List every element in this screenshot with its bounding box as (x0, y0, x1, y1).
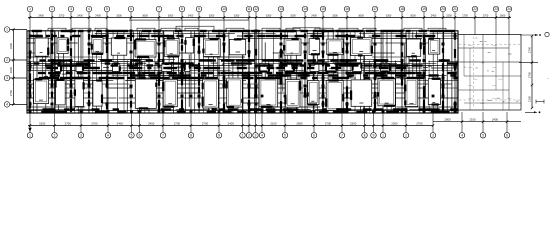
grid bubble top 3 (68, 6, 74, 12)
building left double wall (28, 31, 30, 113)
grid bubble bottom 21 (430, 133, 436, 139)
svg-text:4: 4 (6, 103, 8, 107)
shear wall segments horizontal (32, 30, 42, 32)
svg-text:1700: 1700 (462, 15, 468, 18)
grid bubble top 13 (278, 6, 284, 12)
svg-text:'0.00: '0.00 (498, 79, 503, 81)
svg-text:3: 3 (255, 133, 257, 137)
svg-text:2900: 2900 (296, 121, 303, 125)
grid bubble top 23 (493, 6, 499, 12)
grid bubble top 14 (302, 6, 308, 12)
svg-text:9: 9 (218, 133, 220, 137)
grid bubble bottom 17 (362, 133, 368, 139)
svg-text:7: 7 (162, 133, 164, 137)
svg-text:'0.00: '0.00 (468, 67, 473, 69)
wire: grid extension line (198, 12, 200, 31)
wire: grid extension line (508, 12, 510, 35)
svg-text:2400: 2400 (492, 118, 499, 122)
wire: bottom extension line (190, 113, 192, 132)
wire: grid extension line (88, 12, 90, 31)
grid bubble top 6 (128, 6, 134, 12)
wire: bottom extension line (131, 113, 133, 132)
tick (531, 61, 533, 63)
right bottom leader arrow (525, 111, 537, 113)
annex outline (458, 35, 521, 111)
svg-text:1500: 1500 (446, 15, 452, 18)
grid bubble bottom 3 (78, 133, 84, 139)
grid bubble bottom 4 (105, 133, 111, 139)
svg-text:6: 6 (506, 133, 508, 137)
svg-text:1: 1 (6, 28, 8, 32)
grid bubble top 11 (246, 6, 252, 12)
svg-text:'0.00: '0.00 (492, 98, 497, 100)
building outline (27, 31, 458, 113)
grid bubble bottom 23 (480, 133, 486, 139)
wire: bottom extension line (506, 112, 508, 132)
wire: grid extension line (248, 12, 250, 31)
svg-text:3600: 3600 (358, 15, 364, 18)
grid bubble bottom 16 (339, 133, 345, 139)
svg-text:16: 16 (345, 7, 349, 11)
grid bubble bottom 10 (240, 133, 246, 139)
grid bubble bottom 14 (282, 133, 288, 139)
annex interior vertical lines (482, 35, 484, 111)
wire: left extension line (10, 103, 27, 105)
grid bubble bottom 13 (259, 133, 265, 139)
column blobs (29, 35, 32, 38)
grid bubble bottom 19 (380, 133, 386, 139)
svg-text:2700: 2700 (483, 15, 489, 18)
svg-text:13: 13 (279, 7, 283, 11)
grid bubble bottom 24 (504, 133, 510, 139)
svg-text:3300: 3300 (332, 15, 338, 18)
wire: bottom extension line (261, 113, 263, 132)
grid bubble left 4 (4, 102, 10, 108)
right small dimension bracket (536, 101, 544, 103)
grid bubble left 3 (4, 75, 10, 81)
wire: grid extension line (70, 12, 72, 31)
wire: bottom extension line (405, 113, 407, 132)
grid bubble bottom 9 (216, 133, 222, 139)
annex interior horizontal lines (458, 47, 509, 49)
grid bubble top 12 (253, 6, 259, 12)
wire: bottom extension line (255, 113, 257, 132)
svg-text:1: 1 (242, 133, 244, 137)
grid bubble top 21 (452, 6, 458, 12)
svg-text:3300: 3300 (116, 15, 122, 18)
wire: grid extension line (51, 12, 53, 31)
svg-text:18: 18 (400, 7, 404, 11)
grid bubble bottom 1 (27, 133, 33, 139)
svg-text:7: 7 (341, 133, 343, 137)
svg-text:2700: 2700 (528, 71, 532, 78)
svg-text:'0.00: '0.00 (492, 85, 497, 87)
wire: bottom extension line (54, 113, 56, 132)
grid bubble top 4 (86, 6, 92, 12)
svg-text:3: 3 (6, 76, 8, 80)
svg-text:2400: 2400 (38, 15, 44, 18)
right extension line (519, 62, 538, 64)
wire: bottom extension line (341, 113, 343, 132)
annex small marks (503, 100, 505, 102)
svg-text:2100: 2100 (469, 118, 476, 122)
wire: grid extension line (401, 12, 403, 31)
wire: bottom extension line (107, 113, 109, 132)
wire: grid extension line (158, 12, 160, 31)
wire: bottom extension line (461, 112, 463, 132)
right top leader arrow (520, 34, 538, 36)
interior mesh vertical lines (28, 61, 30, 114)
svg-text:22: 22 (473, 7, 477, 11)
svg-text:3300: 3300 (266, 15, 272, 18)
svg-text:2: 2 (51, 7, 53, 11)
svg-text:4: 4 (107, 133, 109, 137)
grid bubble bottom 6 (137, 133, 143, 139)
grid bubble left 1 (4, 27, 10, 33)
svg-text:'0.00: '0.00 (480, 103, 485, 105)
annex dashed lines (459, 44, 520, 46)
svg-text:2700: 2700 (325, 121, 332, 125)
svg-text:3: 3 (70, 7, 72, 11)
building bottom double wall (27, 110, 458, 112)
grid bubble bottom 8 (188, 133, 194, 139)
grid bubble bottom 15 (311, 133, 317, 139)
wire: grid extension line (454, 12, 456, 31)
svg-text:2300: 2300 (391, 121, 398, 125)
grid bubble top 2 (49, 6, 55, 12)
svg-text:2400: 2400 (431, 15, 437, 18)
grid bubble bottom 7 (160, 133, 166, 139)
grid bubble top 18 (399, 6, 405, 12)
expansion joint (248, 31, 250, 113)
svg-text:8: 8 (364, 133, 366, 137)
shear wall segments on room borders (47, 48, 49, 56)
svg-text:11: 11 (247, 7, 251, 11)
wire: bottom extension line (313, 113, 315, 132)
svg-text:3300: 3300 (234, 15, 240, 18)
svg-text:'0.00: '0.00 (473, 79, 478, 81)
svg-text:2700: 2700 (59, 15, 65, 18)
tick (531, 84, 533, 86)
grid bubble bottom 22 (459, 133, 465, 139)
right vertical dimension line (531, 36, 533, 108)
wire: bottom extension line (242, 113, 244, 132)
grid bubble top 20 (440, 6, 446, 12)
wire: bottom extension line (218, 113, 220, 132)
top secondary dimension line (129, 19, 249, 21)
svg-text:9: 9 (373, 133, 375, 137)
small interior marks (40, 52, 43, 54)
tick (531, 35, 533, 37)
svg-text:5: 5 (106, 7, 108, 11)
svg-text:2700: 2700 (528, 46, 532, 53)
grid bubble top 24 (506, 6, 512, 12)
svg-text:4: 4 (261, 133, 263, 137)
svg-text:2400: 2400 (188, 15, 194, 18)
svg-text:6: 6 (130, 7, 132, 11)
svg-text:'0.00: '0.00 (507, 98, 512, 100)
svg-text:'0.00: '0.00 (492, 67, 497, 69)
grid bubble top 22 (472, 6, 478, 12)
grid bubble left 2 (4, 57, 10, 63)
wire: grid extension line (442, 12, 444, 31)
top dimension line (28, 17, 511, 19)
svg-text:5: 5 (131, 133, 133, 137)
parapet segments (48, 28, 66, 31)
svg-text:2700: 2700 (65, 121, 72, 125)
svg-text:5: 5 (284, 133, 286, 137)
svg-text:8: 8 (181, 7, 183, 11)
wire: grid extension line (495, 12, 497, 35)
wire: grid extension line (322, 12, 324, 31)
svg-text:2: 2 (248, 133, 250, 137)
wire: bottom extension line (284, 113, 286, 132)
svg-text:'0.00: '0.00 (468, 85, 473, 87)
svg-text:2100: 2100 (270, 121, 277, 125)
grid bubble bottom 20 (403, 133, 409, 139)
svg-text:9: 9 (198, 7, 200, 11)
grid bubble bottom 11 (246, 133, 252, 139)
grid bubble top 9 (196, 6, 202, 12)
grid bubble top 19 (421, 6, 427, 12)
svg-text:7: 7 (158, 7, 160, 11)
svg-text:1: 1 (29, 7, 31, 11)
wire: bottom extension line (162, 113, 164, 132)
svg-text:3: 3 (432, 133, 434, 137)
svg-text:3600: 3600 (142, 15, 148, 18)
svg-text:23: 23 (494, 7, 498, 11)
svg-text:2700: 2700 (202, 121, 209, 125)
annex bottom dimension line (433, 121, 521, 123)
svg-text:2: 2 (6, 58, 8, 62)
wire: bottom extension line (364, 113, 366, 132)
svg-text:6: 6 (313, 133, 315, 137)
svg-text:4: 4 (461, 133, 463, 137)
svg-text:1: 1 (382, 133, 384, 137)
wire: grid extension line (346, 12, 348, 31)
tick (531, 107, 533, 109)
wire: bottom extension line (373, 113, 375, 132)
svg-text:1500: 1500 (39, 121, 46, 125)
right top marker bubble (545, 32, 549, 36)
wire: bottom extension line (382, 113, 384, 132)
grid bubble bottom 12 (253, 133, 259, 139)
grid bubble bottom 18 (371, 133, 377, 139)
wire: grid extension line (474, 12, 476, 35)
svg-text:10: 10 (222, 7, 226, 11)
wire: grid extension line (181, 12, 183, 31)
svg-text:3000: 3000 (168, 15, 174, 18)
svg-text:24: 24 (507, 7, 511, 11)
grid bubble top 10 (221, 6, 227, 12)
grid bubble top 7 (156, 6, 162, 12)
wire: bottom extension line (482, 112, 484, 132)
svg-text:21: 21 (453, 7, 457, 11)
svg-text:2700: 2700 (9, 89, 13, 96)
svg-text:'0.00: '0.00 (468, 98, 473, 100)
grid bubble top 8 (179, 6, 185, 12)
wire: bottom extension line (139, 113, 141, 132)
svg-text:17: 17 (373, 7, 377, 11)
grid bubble bottom 5 (129, 133, 135, 139)
svg-text:3000: 3000 (410, 15, 416, 18)
grid bubble top 15 (320, 6, 326, 12)
svg-text:1800: 1800 (9, 66, 13, 73)
svg-text:2700: 2700 (174, 121, 181, 125)
wire: grid extension line (304, 12, 306, 31)
grid bubble top 17 (372, 6, 378, 12)
svg-text:2400: 2400 (228, 121, 235, 125)
wire: left extension line (10, 77, 27, 79)
grid bubble top 5 (104, 6, 110, 12)
wire: grid extension line (423, 12, 425, 31)
grid bubble bottom 2 (52, 133, 58, 139)
svg-text:3300: 3300 (386, 15, 392, 18)
svg-text:2: 2 (405, 133, 407, 137)
svg-text:2400: 2400 (95, 15, 101, 18)
svg-text:15: 15 (321, 7, 325, 11)
wire: grid extension line (223, 12, 225, 31)
grid bubble top 16 (344, 6, 350, 12)
wire: grid extension line (280, 12, 282, 31)
svg-text:5: 5 (482, 133, 484, 137)
svg-text:3300: 3300 (290, 15, 296, 18)
wire: bottom extension line (248, 113, 250, 132)
svg-text:3300: 3300 (209, 15, 215, 18)
interior mesh horizontal lines (95, 33, 162, 35)
wire: bottom extension line (80, 113, 82, 132)
wire: grid extension line (29, 12, 31, 31)
svg-text:2700: 2700 (91, 121, 98, 125)
interior grid verticals (29, 31, 31, 113)
left vertical dimension line (13, 30, 15, 105)
svg-text:2400: 2400 (311, 15, 317, 18)
wire: grid extension line (106, 12, 108, 31)
svg-text:1: 1 (29, 133, 31, 137)
svg-text:12: 12 (254, 7, 258, 11)
svg-text:2: 2 (54, 133, 56, 137)
svg-text:1800: 1800 (500, 15, 506, 18)
svg-text:2400: 2400 (117, 121, 124, 125)
svg-text:14: 14 (303, 7, 307, 11)
svg-text:2900: 2900 (444, 118, 451, 122)
svg-text:20: 20 (441, 7, 445, 11)
svg-text:19: 19 (422, 7, 426, 11)
svg-text:3: 3 (80, 133, 82, 137)
svg-text:2400: 2400 (77, 15, 83, 18)
parapet bulkhead boxes (176, 26, 214, 31)
room outlines (35, 38, 48, 56)
svg-text:2100: 2100 (528, 95, 532, 102)
svg-text:4: 4 (88, 7, 90, 11)
wire: left extension line (10, 59, 27, 61)
svg-text:'0.00: '0.00 (492, 45, 497, 47)
svg-text:2400: 2400 (148, 121, 155, 125)
svg-text:6: 6 (139, 133, 141, 137)
svg-text:2200: 2200 (350, 121, 357, 125)
svg-text:8: 8 (190, 133, 192, 137)
svg-text:2700: 2700 (416, 121, 423, 125)
svg-text:'0.00: '0.00 (468, 45, 473, 47)
wire: grid extension line (374, 12, 376, 31)
wire: grid extension line (130, 12, 132, 31)
wire: left extension line (10, 29, 27, 31)
wire: grid extension line (255, 12, 257, 31)
bottom-left end arrow (29, 126, 31, 131)
bottom dimension line (28, 125, 433, 127)
svg-text:3300: 3300 (9, 42, 13, 49)
grid bubble top 1 (27, 6, 33, 12)
wire: bottom extension line (432, 113, 434, 132)
wire: bottom extension line (29, 113, 31, 132)
shear wall segments vertical (29, 51, 31, 59)
